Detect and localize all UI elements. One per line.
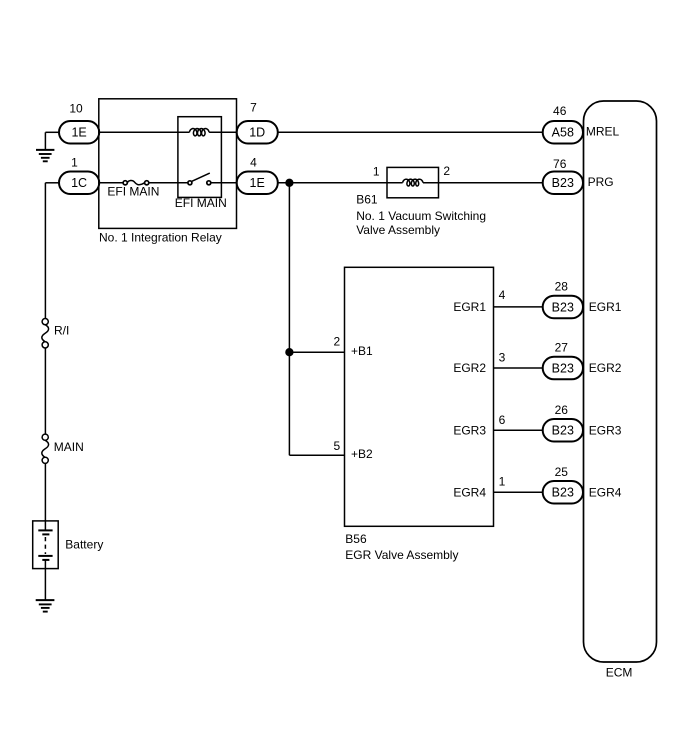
svg-text:Valve Assembly: Valve Assembly: [356, 223, 440, 237]
connector 1E (pin 4): [237, 172, 278, 195]
svg-text:1: 1: [499, 474, 506, 488]
connector 1C (pin 1): [59, 172, 99, 195]
EGR valve box B56: [345, 267, 494, 526]
connector A58 (pin 46): [543, 121, 583, 144]
wire 1C to fuse EFI MAIN: [99, 182, 123, 184]
svg-text:1E: 1E: [250, 176, 265, 190]
wire to +B2: [289, 454, 344, 456]
valve coil L2: [403, 179, 423, 186]
battery plates: [38, 530, 52, 560]
wire R/I to MAIN: [44, 348, 46, 434]
svg-text:No. 1 Vacuum Switching: No. 1 Vacuum Switching: [356, 209, 486, 223]
svg-text:3: 3: [499, 351, 506, 365]
battery box: [33, 521, 59, 569]
wire junction down to +B2 corner: [288, 183, 290, 455]
svg-text:EGR4: EGR4: [453, 485, 486, 499]
svg-text:EFI MAIN: EFI MAIN: [107, 184, 159, 198]
svg-text:B23: B23: [552, 486, 574, 500]
svg-text:PRG: PRG: [588, 175, 614, 189]
ground G1 (top left): [36, 132, 54, 161]
connector B23 EGR3 (pin 26): [543, 419, 583, 442]
svg-text:EGR1: EGR1: [453, 300, 486, 314]
wire battery to ground: [44, 560, 46, 600]
wire to connector 1C: [45, 182, 59, 184]
svg-text:EGR2: EGR2: [589, 361, 622, 375]
svg-text:EFI MAIN: EFI MAIN: [175, 196, 227, 210]
wire to +B1: [289, 351, 344, 353]
wire ground to connector 1E: [45, 131, 59, 133]
svg-text:26: 26: [555, 403, 569, 417]
connector B23 PRG (pin 76): [543, 172, 583, 195]
svg-text:B61: B61: [356, 193, 378, 207]
svg-text:EGR4: EGR4: [589, 485, 622, 499]
relay box No. 1 Integration Relay: [99, 99, 237, 229]
svg-text:2: 2: [443, 164, 450, 178]
connector B23 EGR1 (pin 28): [543, 296, 583, 319]
svg-text:76: 76: [553, 157, 567, 171]
svg-text:4: 4: [499, 288, 506, 302]
svg-text:+B1: +B1: [351, 344, 373, 358]
svg-text:MAIN: MAIN: [54, 440, 84, 454]
wire 1D to A58: [278, 131, 543, 133]
ground G2 (battery): [36, 600, 55, 612]
wire MAIN to battery: [44, 464, 46, 531]
wire fuse to switch: [149, 182, 188, 184]
fuse EFI MAIN (relay internal): [123, 180, 149, 184]
svg-text:4: 4: [250, 155, 257, 169]
junction node B1: [286, 349, 293, 356]
wire EGR1: [494, 306, 543, 308]
svg-text:10: 10: [69, 102, 83, 116]
relay coil L1: [189, 129, 209, 136]
svg-text:EGR2: EGR2: [453, 361, 486, 375]
connector 1D (pin 7): [237, 121, 278, 144]
svg-text:EGR3: EGR3: [453, 423, 486, 437]
svg-text:EGR Valve Assembly: EGR Valve Assembly: [345, 548, 458, 562]
wire EGR2: [494, 367, 543, 369]
svg-text:1D: 1D: [249, 126, 265, 140]
connector 1E (pin 10): [59, 121, 99, 144]
svg-text:28: 28: [555, 279, 569, 293]
svg-text:1: 1: [373, 164, 380, 178]
valve box B61: [387, 167, 439, 197]
fuse R/I: [42, 319, 49, 349]
wire EGR3: [494, 429, 543, 431]
svg-text:R/I: R/I: [54, 324, 69, 338]
wire 1E to B61: [278, 182, 403, 184]
svg-text:27: 27: [555, 341, 569, 355]
svg-text:A58: A58: [552, 126, 574, 140]
connector B23 EGR2 (pin 27): [543, 357, 583, 380]
ECM box: [584, 101, 657, 662]
svg-text:5: 5: [333, 439, 340, 453]
relay switch EFI MAIN: [188, 173, 211, 185]
svg-text:6: 6: [499, 413, 506, 427]
svg-text:EGR1: EGR1: [589, 300, 622, 314]
wire EGR4: [494, 491, 543, 493]
svg-text:7: 7: [250, 100, 257, 114]
relay inner box: [178, 117, 222, 198]
connector B23 EGR4 (pin 25): [543, 481, 583, 504]
svg-text:B23: B23: [552, 424, 574, 438]
svg-text:B23: B23: [552, 300, 574, 314]
wire B61 to B23 PRG: [423, 182, 543, 184]
fuse MAIN: [42, 434, 49, 463]
svg-text:1C: 1C: [71, 176, 87, 190]
svg-text:2: 2: [333, 335, 340, 349]
svg-text:1: 1: [71, 155, 78, 169]
svg-text:46: 46: [553, 104, 567, 118]
wire coil to 1D: [209, 131, 237, 133]
svg-text:EGR3: EGR3: [589, 423, 622, 437]
svg-text:No. 1 Integration Relay: No. 1 Integration Relay: [99, 230, 222, 244]
wire switch to 1E out: [211, 182, 237, 184]
svg-text:Battery: Battery: [65, 538, 103, 552]
wire row1 inside relay: [99, 131, 189, 133]
svg-text:B23: B23: [552, 176, 574, 190]
junction node: [286, 179, 293, 186]
svg-text:25: 25: [555, 465, 569, 479]
svg-text:1E: 1E: [71, 126, 86, 140]
wire battery feed vertical: [44, 183, 46, 319]
svg-text:MREL: MREL: [586, 125, 620, 139]
svg-text:B56: B56: [345, 532, 367, 546]
svg-text:B23: B23: [552, 362, 574, 376]
svg-text:+B2: +B2: [351, 447, 373, 461]
svg-text:ECM: ECM: [606, 666, 633, 680]
